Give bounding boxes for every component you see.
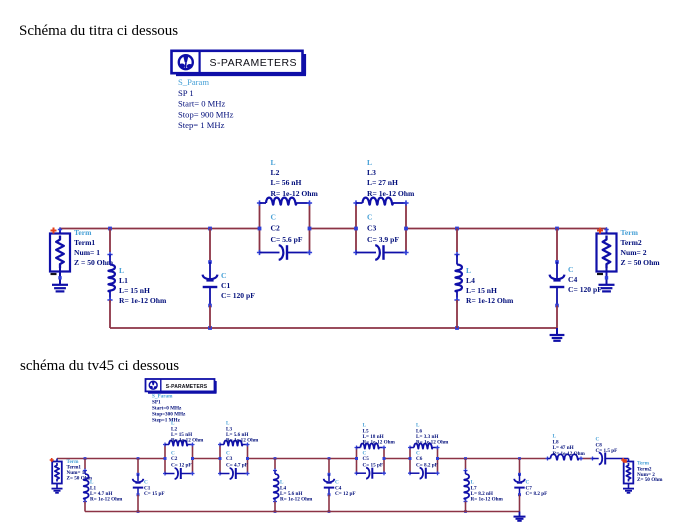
svg-text:C= 8.2 pF: C= 8.2 pF — [526, 491, 548, 497]
svg-text:S-PARAMETERS: S-PARAMETERS — [210, 57, 297, 69]
label L8 — [553, 434, 586, 458]
wire top rail b5 — [438, 458, 548, 460]
label L2 — [271, 158, 319, 198]
label L7 — [471, 480, 504, 503]
minus marker Term2 — [597, 273, 603, 275]
capacitor C8 C=1.5 pF — [591, 453, 629, 465]
label C5 — [363, 451, 384, 469]
svg-text:Stop= 900 MHz: Stop= 900 MHz — [178, 109, 234, 119]
capacitor C6 C=8.2 pF — [408, 468, 440, 479]
S-PARAMETERS simulation block (bottom) — [146, 379, 217, 393]
svg-text:C= 5.6 pF: C= 5.6 pF — [271, 235, 303, 244]
junction C1/bottom rail — [208, 326, 212, 330]
svg-text:C= 120 pF: C= 120 pF — [221, 291, 255, 300]
svg-text:R= 1e-12 Ohm: R= 1e-12 Ohm — [171, 438, 204, 444]
wire C4 bottom lead — [328, 495, 330, 512]
svg-text:C3: C3 — [226, 456, 233, 462]
svg-text:C4: C4 — [568, 275, 577, 284]
svg-text:Term1: Term1 — [74, 238, 95, 247]
wire top rail segment 2 — [310, 228, 357, 230]
svg-text:C= 12 pF: C= 12 pF — [335, 491, 356, 497]
wire C7 top lead (bottom circuit) — [519, 459, 521, 474]
terminal Term1 (input term top circuit) — [50, 227, 70, 271]
label C4 — [568, 265, 602, 294]
junction L7/top rail b — [464, 457, 467, 460]
inductor L8 L=47 nH — [546, 454, 584, 460]
svg-text:Step= 1 MHz: Step= 1 MHz — [178, 120, 225, 130]
svg-text:Z = 50 Ohm: Z = 50 Ohm — [621, 258, 661, 267]
S-PARAMETERS simulation block (top) — [172, 51, 307, 75]
wire between L8 and C8 — [581, 458, 593, 460]
label Term2 — [637, 461, 663, 484]
svg-text:S-PARAMETERS: S-PARAMETERS — [166, 384, 208, 390]
junction L7/bottom rail b — [464, 510, 467, 513]
inductor L4 L=5.6 nH — [273, 469, 279, 504]
wire top rail segment 1 — [60, 228, 260, 230]
junction L4/top rail — [455, 227, 459, 231]
inductor L5 L=18 nH — [355, 444, 387, 450]
ground at bottom rail end (top circuit) — [550, 328, 565, 341]
wire L4 bottom lead — [274, 502, 276, 512]
label L3 — [226, 421, 259, 444]
junction L4/bottom rail b — [274, 510, 277, 513]
junction C1/bottom rail b — [137, 510, 140, 513]
label C3 — [226, 451, 248, 469]
wire left side of L3/C3 loop — [355, 203, 357, 253]
wire right side of L3/C3 loop — [247, 445, 249, 474]
svg-text:L= 15 nH: L= 15 nH — [119, 286, 150, 295]
svg-text:Term: Term — [621, 228, 639, 237]
wire left side of L6/C6 loop — [409, 448, 411, 474]
svg-text:Start= 0 MHz: Start= 0 MHz — [178, 99, 226, 109]
capacitor C5 C=15 pF — [355, 468, 387, 479]
svg-text:R= 1e-12 Ohm: R= 1e-12 Ohm — [119, 296, 167, 305]
capacitor C4 C=12 pF — [324, 473, 335, 496]
svg-text:R= 1e-12 Ohm: R= 1e-12 Ohm — [226, 438, 259, 444]
svg-text:Step=1 MHz: Step=1 MHz — [152, 417, 181, 423]
inductor L6 L=3.3 nH — [408, 444, 440, 450]
inductor L1 L=15 nH — [107, 252, 115, 303]
label L4 — [466, 266, 514, 305]
label S_Param SP1 (top) — [178, 77, 234, 130]
svg-text:L3: L3 — [367, 168, 376, 177]
junction C1/top rail — [208, 227, 212, 231]
svg-text:C5: C5 — [363, 456, 370, 462]
svg-text:C= 12 pF: C= 12 pF — [171, 463, 192, 469]
svg-text:R= 1e-12 Ohm: R= 1e-12 Ohm — [553, 451, 586, 457]
wire L1 top lead — [109, 229, 111, 253]
label C2 — [271, 213, 303, 245]
label C2 — [171, 451, 192, 469]
svg-text:C3: C3 — [367, 224, 376, 233]
svg-text:L2: L2 — [271, 168, 280, 177]
capacitor C3 C=3.9 pF — [353, 245, 408, 260]
junction C4/top rail — [555, 227, 559, 231]
inductor L2 L=15 nH — [163, 441, 195, 447]
svg-text:schéma du tv45 ci dessous: schéma du tv45 ci dessous — [20, 358, 179, 374]
inductor L2 L=56 nH — [257, 198, 312, 206]
capacitor C2 C=5.6 pF — [257, 245, 312, 260]
plus marker Term1 — [51, 228, 57, 234]
wire bottom rail — [110, 327, 557, 329]
svg-text:R= 1e-12 Ohm: R= 1e-12 Ohm — [416, 440, 449, 446]
svg-text:Z= 50 Ohm: Z= 50 Ohm — [637, 477, 663, 483]
wire left side of L2/C2 loop — [259, 203, 261, 253]
svg-text:L= 27 nH: L= 27 nH — [367, 178, 398, 187]
wire L1 top lead (bottom circuit) — [84, 459, 86, 470]
wire C1 top lead — [209, 229, 211, 262]
svg-text:C= 4.7 pF: C= 4.7 pF — [226, 463, 248, 469]
wire right side of L6/C6 loop — [437, 448, 439, 474]
wire right side of L2/C2 loop — [192, 445, 194, 474]
svg-text:R= 1e-12 Ohm: R= 1e-12 Ohm — [466, 296, 514, 305]
svg-text:C= 120 pF: C= 120 pF — [568, 285, 602, 294]
svg-text:C= 3.9 pF: C= 3.9 pF — [367, 235, 399, 244]
label Term1 — [67, 459, 93, 482]
capacitor C3 C=4.7 pF — [218, 468, 250, 479]
svg-text:R= 1e-12 Ohm: R= 1e-12 Ohm — [367, 189, 415, 198]
wire top rail b3 — [248, 458, 357, 460]
svg-text:Term2: Term2 — [621, 238, 642, 247]
svg-text:Schéma du titra ci dessous: Schéma du titra ci dessous — [19, 23, 178, 39]
junction L4/bottom rail — [455, 326, 459, 330]
svg-text:C= 1.5 pF: C= 1.5 pF — [596, 448, 618, 454]
svg-text:L: L — [119, 266, 124, 275]
svg-text:L4: L4 — [466, 276, 475, 285]
svg-text:R= 1e-12 Ohm: R= 1e-12 Ohm — [90, 497, 123, 503]
wire C1 bottom lead — [137, 495, 139, 512]
svg-text:L= 15 nH: L= 15 nH — [466, 286, 497, 295]
svg-text:R= 1e-12 Ohm: R= 1e-12 Ohm — [271, 189, 319, 198]
svg-text:C= 8.2 pF: C= 8.2 pF — [416, 463, 438, 469]
plus marker Term2 — [597, 228, 603, 234]
wire left side of L2/C2 loop — [164, 445, 166, 474]
wire L4 bottom lead — [456, 300, 458, 328]
svg-text:R= 1e-12 Ohm: R= 1e-12 Ohm — [280, 497, 313, 503]
junction C1/top rail b — [137, 457, 140, 460]
label L1 — [119, 266, 167, 305]
wire top rail segment 3 — [406, 228, 607, 230]
wire top rail b1 — [57, 458, 165, 460]
wire L4 top lead (bottom circuit) — [274, 459, 276, 470]
svg-text:L: L — [367, 158, 372, 167]
inductor L4 L=15 nH — [454, 252, 462, 303]
ground below Term1 — [52, 272, 68, 292]
junction L1/top rail — [108, 227, 112, 231]
wire right side of L2/C2 loop — [309, 203, 311, 253]
wire L1 bottom lead — [84, 502, 86, 512]
wire L4 top lead — [456, 229, 458, 253]
wire bottom rail (bottom circuit) — [85, 511, 520, 513]
wire C1 top lead (bottom circuit) — [137, 459, 139, 474]
label C7 — [526, 480, 548, 498]
capacitor C2 C=12 pF — [163, 468, 195, 479]
label C1 — [221, 271, 255, 300]
svg-text:C2: C2 — [171, 456, 178, 462]
label L5 — [363, 423, 396, 446]
svg-text:L1: L1 — [119, 276, 128, 285]
label S_Param SP1 (bottom) — [152, 394, 186, 424]
svg-text:Z = 50 Ohm: Z = 50 Ohm — [74, 258, 114, 267]
wire top rail b4 — [384, 458, 410, 460]
junction C7/top rail b — [518, 457, 521, 460]
inductor L3 L=27 nH — [353, 198, 408, 206]
wire right side of L3/C3 loop — [405, 203, 407, 253]
wire left side of L5/C5 loop — [356, 448, 358, 474]
label C4 — [335, 480, 356, 498]
capacitor C4 C=120 pF — [550, 260, 565, 307]
label Term1 — [74, 228, 114, 267]
svg-text:C: C — [221, 271, 226, 280]
wire L7 top lead (bottom circuit) — [465, 459, 467, 470]
svg-text:C= 15 pF: C= 15 pF — [144, 491, 165, 497]
label C8 — [596, 437, 618, 455]
wire L1 bottom lead — [109, 300, 111, 328]
label L4 — [280, 480, 313, 503]
svg-text:Num= 1: Num= 1 — [74, 248, 100, 257]
svg-text:Num= 2: Num= 2 — [621, 248, 647, 257]
label L6 — [416, 423, 449, 446]
junction C4/bottom rail b — [328, 510, 331, 513]
label L2 — [171, 421, 204, 444]
inductor L1 L=4.7 nH — [83, 469, 89, 504]
terminal Term1 (input term bottom circuit) — [52, 459, 62, 484]
plus marker near Term2 wire — [623, 459, 627, 463]
wire top rail b2 — [193, 458, 221, 460]
label Term2 — [621, 228, 661, 267]
minus marker Term1 — [51, 273, 57, 275]
ground at bottom rail end (bottom circuit) — [514, 512, 526, 521]
label C3 — [367, 213, 399, 245]
wire C4 top lead (bottom circuit) — [328, 459, 330, 474]
svg-text:L: L — [271, 158, 276, 167]
capacitor C7 C=8.2 pF — [514, 473, 525, 496]
junction L4/top rail b — [274, 457, 277, 460]
junction C4/top rail b — [328, 457, 331, 460]
svg-text:L= 56 nH: L= 56 nH — [271, 178, 302, 187]
svg-text:S_Param: S_Param — [178, 77, 209, 87]
svg-text:C2: C2 — [271, 224, 280, 233]
svg-text:C: C — [568, 265, 573, 274]
svg-text:SP 1: SP 1 — [178, 88, 194, 98]
ground below Term2 — [599, 272, 615, 292]
wire C4 top lead — [556, 229, 558, 262]
terminal Term2 (output term top circuit) — [597, 227, 617, 271]
wire C4 bottom lead — [556, 306, 558, 329]
wire C1 bottom lead — [209, 306, 211, 329]
junction L1/top rail b — [84, 457, 87, 460]
inductor L3 L=5.6 nH — [218, 441, 250, 447]
plus marker Term1 — [50, 458, 54, 462]
plus marker Term2 — [621, 458, 625, 462]
capacitor C1 C=15 pF — [133, 473, 144, 496]
svg-text:Term: Term — [74, 228, 92, 237]
svg-text:R= 1e-12 Ohm: R= 1e-12 Ohm — [471, 497, 504, 503]
label L3 — [367, 158, 415, 198]
label L1 — [90, 480, 123, 503]
svg-text:C1: C1 — [221, 281, 230, 290]
svg-text:R= 1e-12 Ohm: R= 1e-12 Ohm — [363, 440, 396, 446]
svg-text:C: C — [367, 213, 372, 222]
label C6 — [416, 451, 438, 469]
wire right side of L5/C5 loop — [383, 448, 385, 474]
inductor L7 L=8.2 nH — [464, 469, 470, 504]
wire C7 bottom lead — [519, 495, 521, 512]
svg-text:C6: C6 — [416, 456, 423, 462]
capacitor C1 C=120 pF — [203, 260, 218, 307]
ground below Term1 — [52, 484, 63, 493]
wire left side of L3/C3 loop — [219, 445, 221, 474]
svg-text:C= 15 pF: C= 15 pF — [363, 463, 384, 469]
svg-text:C: C — [271, 213, 276, 222]
label C1 — [144, 480, 165, 498]
svg-text:L: L — [466, 266, 471, 275]
ground below Term2 — [623, 484, 634, 493]
terminal Term2 (output term bottom circuit) — [624, 459, 634, 484]
wire L7 bottom lead — [465, 502, 467, 512]
